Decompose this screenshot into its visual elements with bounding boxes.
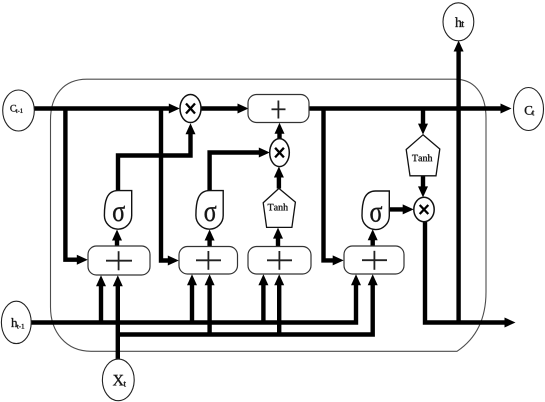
wire box2 to sigma2	[205, 230, 215, 247]
wire ht-1 branch to box2	[187, 274, 197, 322]
plus box4 (output gate sum)	[344, 246, 404, 274]
wire main line to tanh2	[418, 109, 428, 135]
wire ht-1 line	[31, 274, 361, 322]
cell border (rounded rectangle)	[51, 79, 487, 351]
wire sigma3 to multiply3	[389, 204, 413, 214]
node ht-1	[1, 301, 31, 343]
sigma gate 1	[104, 191, 131, 230]
wire peephole Ct to box4	[324, 109, 344, 266]
node ht	[443, 3, 474, 41]
wire sigma2 to multiply2	[210, 148, 270, 191]
multiply gate X2	[270, 139, 290, 167]
wire tanh2 to multiply3	[418, 176, 428, 198]
wire ht-1 branch to box1	[96, 275, 106, 322]
tanh pentagon 2	[406, 135, 440, 176]
wire Xt line	[118, 274, 378, 334]
wire multiply3 output	[425, 221, 516, 328]
plus box top (cell update)	[248, 95, 309, 123]
wire box4 to sigma3	[368, 229, 378, 246]
node Xt	[102, 359, 134, 401]
wire plus box to Ct	[309, 104, 512, 114]
plus box3 (candidate sum)	[248, 247, 311, 275]
plus box1 (forget gate sum)	[88, 246, 150, 275]
plus box2 (input gate sum)	[179, 247, 238, 275]
wire multiply1 to plus box	[201, 104, 249, 114]
wire tanh1 to multiply2	[274, 167, 284, 189]
wire ht-1 branch to box3	[258, 274, 268, 322]
wire box1 to sigma1	[112, 230, 122, 247]
wire multiply2 to plus box	[275, 123, 285, 139]
wire box3 to tanh1	[273, 228, 283, 247]
tanh pentagon 1	[263, 188, 295, 227]
node Ct	[514, 88, 544, 131]
node Ct-1	[3, 90, 35, 131]
sigma gate 2	[196, 191, 223, 230]
wire peephole Ct-1 to box2	[161, 109, 179, 266]
multiply gate X1	[180, 95, 201, 123]
wire Xt branch to box3	[274, 274, 284, 334]
wire sigma1 to multiply1	[118, 123, 196, 190]
wire ht branch up	[454, 41, 464, 323]
wire Xt vertical into box1	[113, 275, 123, 360]
wire Xt branch to box2	[205, 274, 215, 334]
sigma gate 3	[362, 191, 389, 230]
wire peephole Ct-1 to box1	[65, 109, 87, 265]
multiply gate X3	[414, 197, 434, 221]
wire Ct-1 main line to multiply gate	[34, 104, 180, 114]
